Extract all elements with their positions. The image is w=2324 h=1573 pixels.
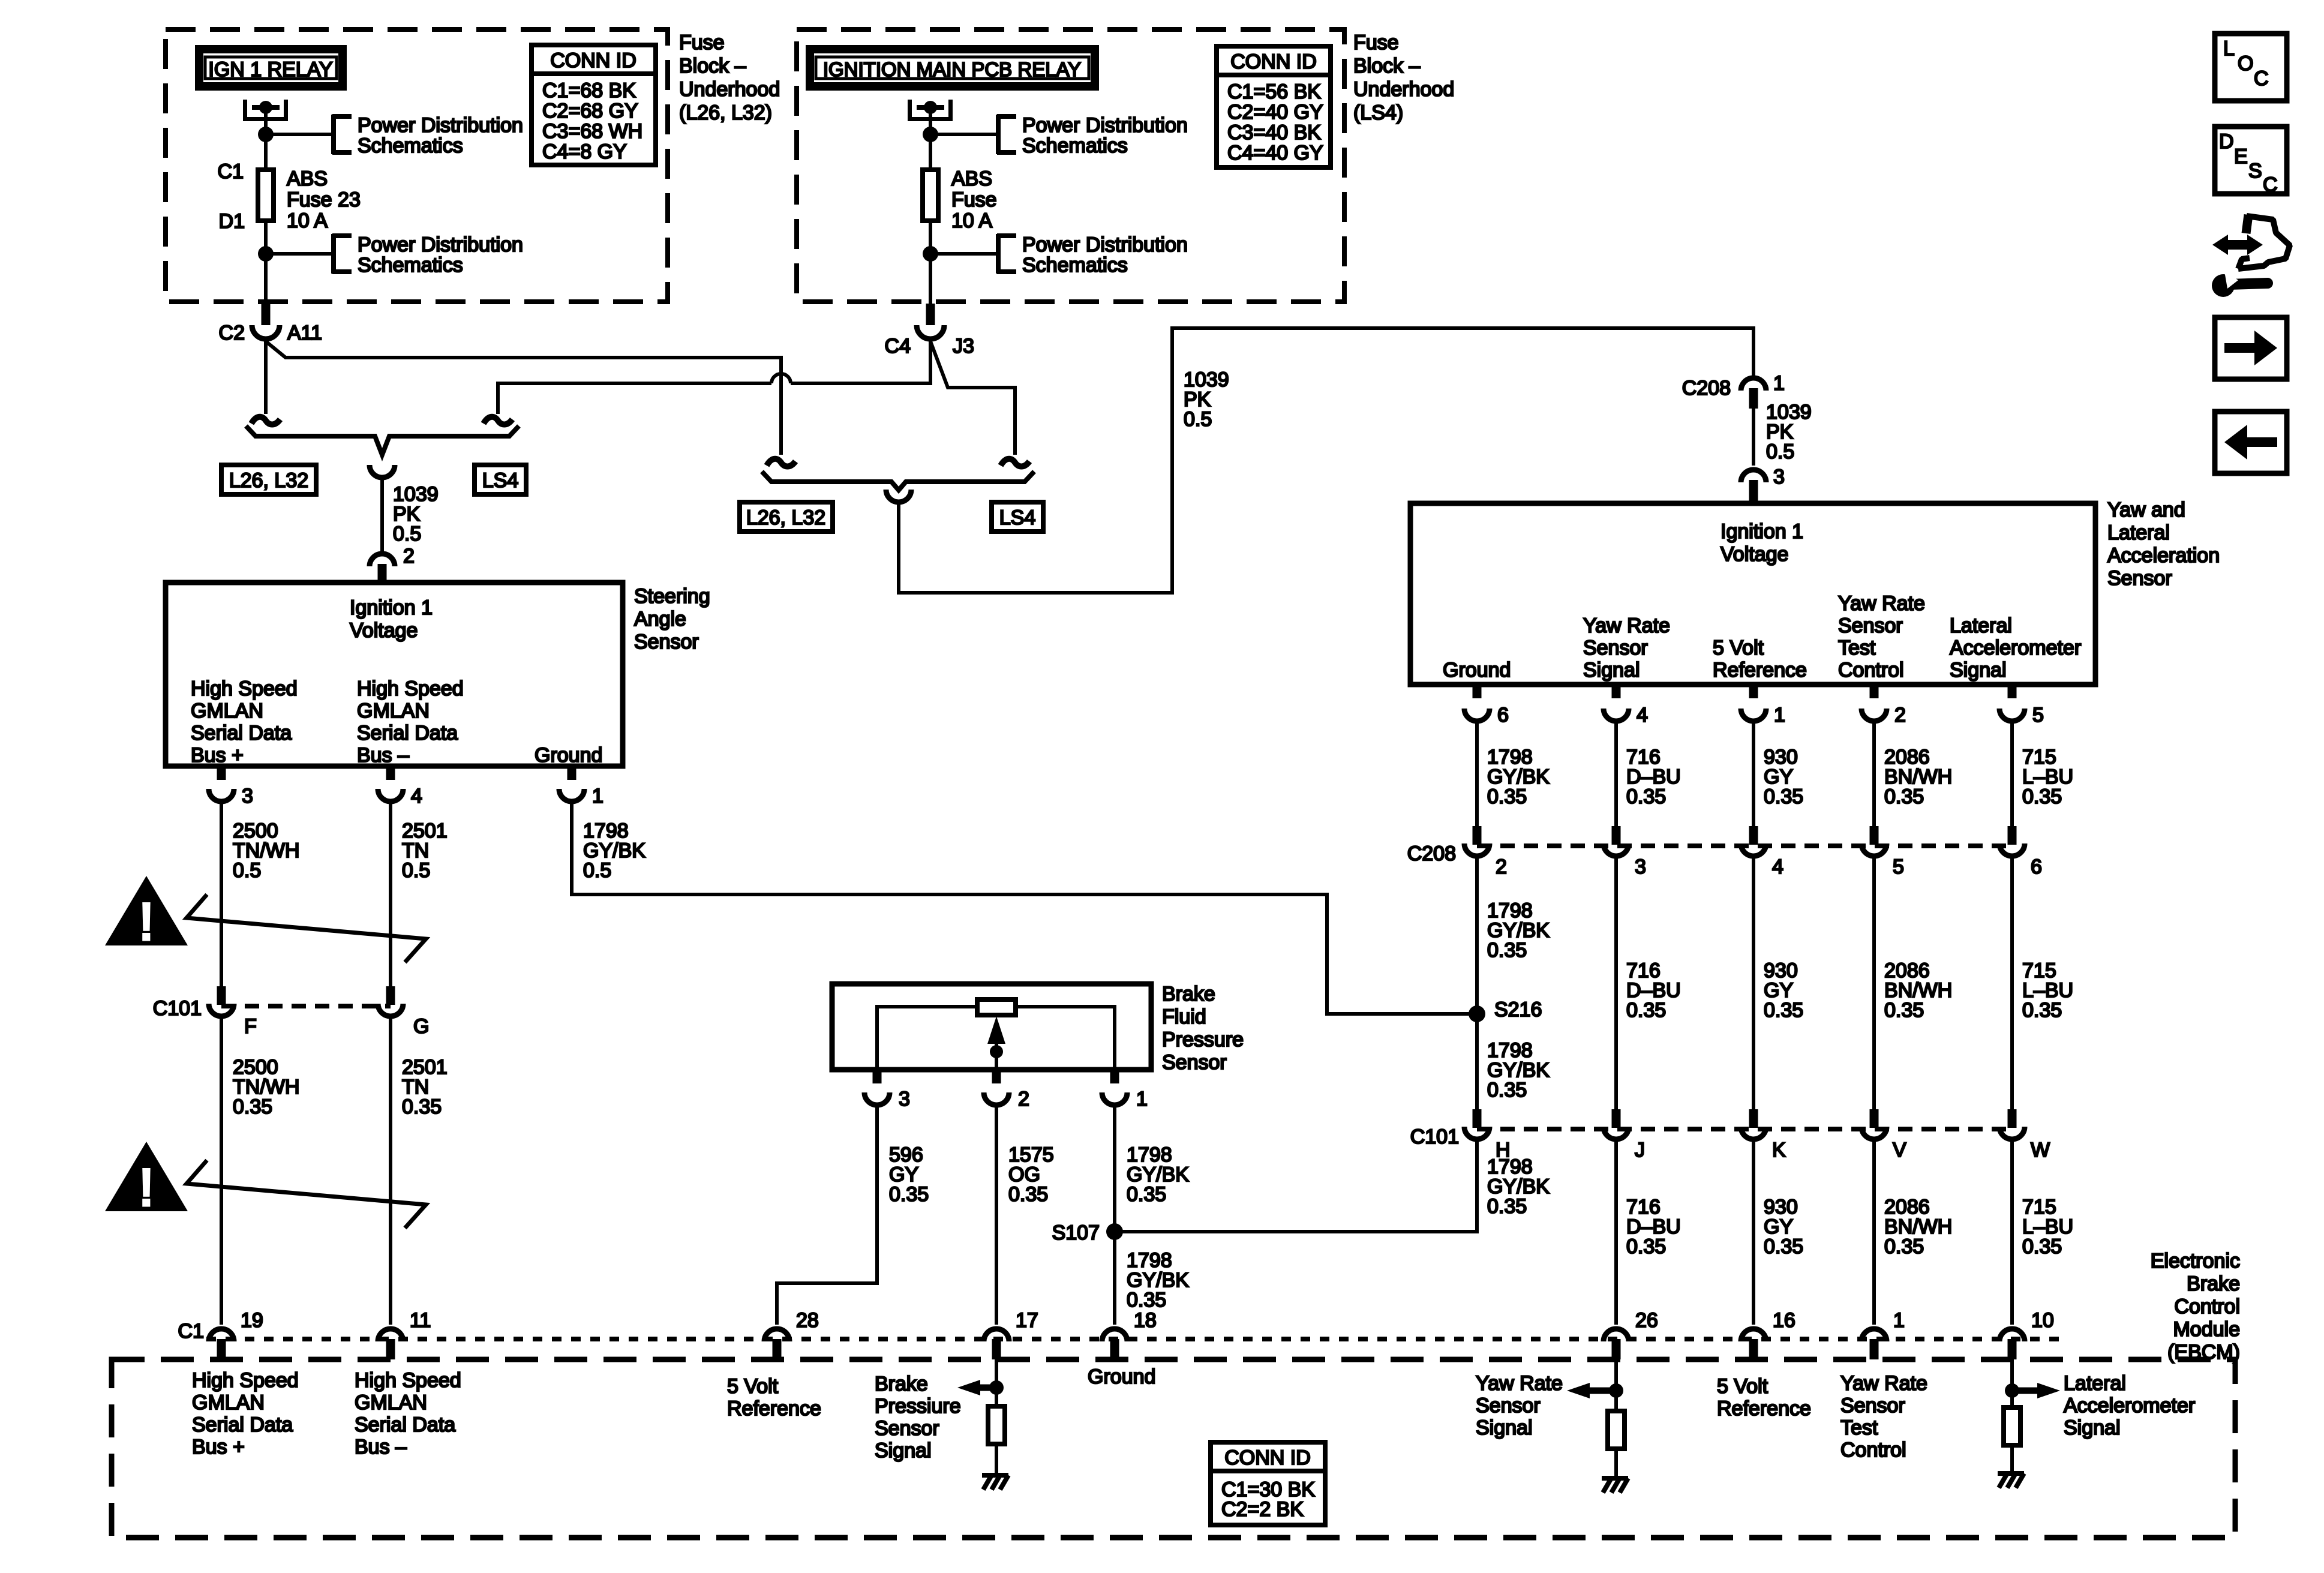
svg-text:C1=56 BK: C1=56 BK — [1227, 80, 1321, 103]
lateral accelerometer signal arrow + pulldown — [2010, 1359, 2014, 1407]
svg-text:C2: C2 — [219, 322, 245, 344]
wire yaw pin 5 to C208 — [2010, 724, 2014, 826]
EBCM pin 1 — [1861, 1329, 1887, 1341]
svg-text:0.5: 0.5 — [1184, 408, 1212, 431]
svg-text:4: 4 — [1637, 704, 1648, 727]
wire 2501 TN — [389, 804, 392, 986]
brake sensor pin 2 — [992, 1070, 1001, 1083]
yaw and lateral acceleration sensor box — [1410, 503, 2095, 685]
svg-text:Schematics: Schematics — [358, 254, 463, 277]
svg-text:C2=68 GY: C2=68 GY — [542, 100, 638, 122]
icon LOC box — [2215, 34, 2287, 101]
svg-text:2: 2 — [1496, 855, 1507, 878]
svg-text:Bus –: Bus – — [357, 744, 409, 767]
connector C4 pin J3 — [926, 304, 935, 325]
label box LS4 (right) — [992, 502, 1043, 532]
svg-text:Acceleration: Acceleration — [2107, 544, 2220, 567]
wire J3 to left splice LS4 clip with hop over crossing — [791, 341, 930, 383]
svg-text:Sensor: Sensor — [1162, 1051, 1227, 1074]
svg-text:28: 28 — [796, 1309, 819, 1332]
svg-text:Fluid: Fluid — [1162, 1005, 1206, 1028]
svg-text:0.35: 0.35 — [1884, 1235, 1924, 1258]
svg-text:Ground: Ground — [535, 744, 602, 767]
icon forward arrow box — [2215, 317, 2287, 379]
wire yaw pin 4 to C208 — [1614, 724, 1618, 826]
svg-text:Test: Test — [1838, 637, 1876, 659]
wire below C208 — [1872, 858, 1876, 1109]
svg-text:Pressiure: Pressiure — [875, 1395, 961, 1418]
svg-text:0.35: 0.35 — [2022, 785, 2062, 808]
wire branch to power distribution 2 — [266, 252, 332, 256]
svg-text:Yaw Rate: Yaw Rate — [1838, 592, 1925, 615]
CONN ID box EBCM — [1211, 1442, 1325, 1525]
svg-text:0.35: 0.35 — [1884, 999, 1924, 1022]
svg-text:19: 19 — [241, 1309, 263, 1332]
svg-text:3: 3 — [899, 1088, 910, 1110]
svg-text:5: 5 — [1893, 855, 1904, 878]
svg-text:Signal: Signal — [1476, 1416, 1533, 1439]
svg-text:C101: C101 — [1410, 1125, 1459, 1148]
svg-text:0.35: 0.35 — [889, 1183, 929, 1206]
svg-text:L: L — [2223, 37, 2235, 60]
fuse ABS Fuse 23 10A — [258, 170, 274, 221]
connector C101 pin H — [1473, 1109, 1482, 1128]
svg-text:Fuse 23: Fuse 23 — [287, 188, 361, 211]
svg-text:(L26, L32): (L26, L32) — [679, 101, 772, 124]
svg-text:D1: D1 — [219, 210, 245, 233]
wire fuse down — [929, 221, 932, 306]
yaw sensor pin 2 — [1870, 685, 1879, 698]
svg-text:0.35: 0.35 — [1764, 999, 1803, 1022]
svg-text:18: 18 — [1134, 1309, 1157, 1332]
IGN 1 RELAY box — [199, 49, 343, 86]
svg-text:V: V — [1893, 1139, 1906, 1161]
wire 1798 GY/BK ground feed to S216 — [572, 804, 1477, 1014]
svg-text:C3=40 BK: C3=40 BK — [1227, 121, 1321, 144]
connector C101 pin K — [1749, 1109, 1758, 1128]
wire yaw pin 2 to C208 — [1872, 724, 1876, 826]
yaw sensor pin 5 — [2008, 685, 2017, 698]
wire A11 to right splice clip — [266, 341, 781, 455]
svg-text:0.35: 0.35 — [2022, 1235, 2062, 1258]
connector C101 pin G — [386, 986, 395, 1005]
svg-text:Fuse: Fuse — [951, 188, 997, 211]
svg-text:Power Distribution: Power Distribution — [358, 233, 523, 256]
svg-text:Test: Test — [1840, 1416, 1878, 1439]
svg-text:(EBCM): (EBCM) — [2167, 1341, 2240, 1364]
steering angle sensor box — [166, 583, 623, 766]
brake sensor pin 3 — [873, 1070, 882, 1083]
svg-text:Voltage: Voltage — [1721, 543, 1788, 566]
svg-text:0.5: 0.5 — [402, 859, 430, 882]
svg-text:J3: J3 — [953, 335, 974, 358]
svg-text:Sensor: Sensor — [2107, 567, 2172, 590]
svg-text:E: E — [2234, 145, 2248, 168]
svg-text:High Speed: High Speed — [357, 677, 464, 700]
svg-text:C3=68 WH: C3=68 WH — [542, 120, 642, 143]
svg-text:Yaw and: Yaw and — [2107, 499, 2185, 521]
svg-text:Fuse: Fuse — [679, 31, 725, 54]
svg-text:C: C — [2254, 67, 2269, 90]
svg-text:(LS4): (LS4) — [1353, 101, 1403, 124]
svg-text:5 Volt: 5 Volt — [1713, 637, 1764, 659]
svg-text:CONN ID: CONN ID — [550, 49, 636, 72]
svg-text:Sensor: Sensor — [1838, 614, 1903, 637]
connector C208 pin 4 — [1749, 826, 1758, 845]
connector C101 pin V — [1870, 1109, 1879, 1128]
potentiometer element — [977, 999, 1016, 1015]
connector C101 pin F — [217, 986, 226, 1005]
side reference Power Distribution Schematics (top) — [331, 115, 336, 154]
svg-text:16: 16 — [1773, 1309, 1795, 1332]
svg-text:ABS: ABS — [287, 167, 328, 190]
option brace left — [246, 426, 519, 455]
svg-text:Accelerometer: Accelerometer — [2064, 1394, 2195, 1417]
option splice output connector — [886, 490, 911, 502]
clip wire end LS4 (right) — [1001, 459, 1029, 467]
steering pin 3 — [217, 766, 226, 780]
svg-text:Signal: Signal — [1950, 659, 2007, 682]
wire yaw pin 1 to C208 — [1752, 724, 1755, 826]
fuse block underhood (LS4) dashed box — [797, 29, 1344, 302]
svg-text:17: 17 — [1016, 1309, 1038, 1332]
wire below C208 — [2010, 858, 2014, 1109]
svg-text:Serial Data: Serial Data — [191, 722, 292, 745]
wire A11 down to left splice clip — [264, 341, 268, 414]
svg-text:S: S — [2248, 160, 2262, 182]
warning triangle 2 — [105, 1142, 188, 1211]
label box LS4 — [475, 465, 526, 494]
wire below C101 2086 BN/WH 0.35 — [1872, 1142, 1876, 1325]
svg-text:2: 2 — [403, 545, 415, 568]
splice S107 — [1106, 1223, 1123, 1240]
svg-text:J: J — [1635, 1139, 1645, 1161]
wire yaw pin 6 to C208 — [1475, 724, 1479, 826]
svg-text:Lateral: Lateral — [1950, 614, 2012, 637]
steering pin 4 — [386, 766, 395, 780]
svg-text:A11: A11 — [287, 322, 322, 344]
connector C208 pin 3 — [1741, 470, 1766, 482]
svg-text:Yaw Rate: Yaw Rate — [1840, 1372, 1927, 1395]
icon DESC box — [2215, 127, 2287, 194]
svg-text:C2=2 BK: C2=2 BK — [1221, 1498, 1304, 1521]
svg-text:Angle: Angle — [634, 608, 686, 631]
svg-text:0.35: 0.35 — [1626, 999, 1666, 1022]
svg-text:C101: C101 — [153, 997, 202, 1020]
svg-text:CONN ID: CONN ID — [1230, 50, 1317, 73]
svg-text:C4=40 GY: C4=40 GY — [1227, 142, 1323, 164]
icon shortcut jump with wrench — [2212, 235, 2263, 255]
wire below C208 — [1752, 858, 1755, 1109]
connector row C208 dashed line — [1477, 843, 2012, 848]
potentiometer internal wiring — [877, 1007, 1115, 1070]
svg-text:C2=40 GY: C2=40 GY — [1227, 101, 1323, 124]
connector row C101 (F,G) dashed line — [221, 1004, 391, 1008]
svg-text:5 Volt: 5 Volt — [1717, 1375, 1768, 1398]
svg-text:0.35: 0.35 — [1487, 1079, 1527, 1101]
wire below C101 716 D–BU 0.35 — [1614, 1142, 1618, 1325]
wire below C101 715 L–BU 0.35 — [2010, 1142, 2014, 1325]
svg-text:GMLAN: GMLAN — [355, 1391, 427, 1414]
svg-text:10 A: 10 A — [287, 209, 328, 232]
svg-text:L26, L32: L26, L32 — [229, 469, 308, 492]
svg-text:IGN 1 RELAY: IGN 1 RELAY — [208, 58, 332, 81]
steering pin 1 — [568, 766, 577, 780]
twisted pair mark 1 — [187, 894, 426, 962]
wire 1798 GY/BK 0.35 — [1113, 1107, 1116, 1325]
brake sensor pin 1 — [1110, 1070, 1119, 1083]
svg-text:4: 4 — [1772, 855, 1783, 878]
svg-text:0.35: 0.35 — [1127, 1289, 1166, 1311]
connector C2 pin A11 — [262, 304, 271, 325]
svg-text:IGNITION MAIN PCB RELAY: IGNITION MAIN PCB RELAY — [823, 58, 1081, 80]
svg-text:10 A: 10 A — [951, 209, 992, 232]
splice S216 — [1469, 1005, 1485, 1022]
connector row C101 (H-W) dashed line — [1477, 1127, 2012, 1131]
wire 2500 TN/WH 0.35 — [220, 1019, 223, 1325]
svg-text:Voltage: Voltage — [350, 619, 418, 642]
wire J3 to right splice LS4 clip — [930, 341, 1015, 455]
EBCM pin 28 — [764, 1329, 789, 1341]
svg-text:Yaw Rate: Yaw Rate — [1583, 614, 1670, 637]
svg-text:0.35: 0.35 — [1764, 1235, 1803, 1258]
EBCM pin 16 — [1741, 1329, 1766, 1341]
connector C208 pin 3 — [1612, 826, 1621, 845]
svg-text:Control: Control — [1840, 1439, 1906, 1461]
svg-text:Module: Module — [2173, 1318, 2240, 1341]
svg-text:Ground: Ground — [1088, 1365, 1155, 1388]
svg-text:1: 1 — [1893, 1309, 1905, 1332]
label box L26,L32 — [221, 465, 316, 494]
svg-text:High Speed: High Speed — [191, 677, 298, 700]
svg-text:0.35: 0.35 — [233, 1095, 272, 1118]
wire 1039 PK feed to yaw sensor — [899, 328, 1753, 593]
svg-text:GMLAN: GMLAN — [357, 700, 430, 722]
svg-text:0.35: 0.35 — [402, 1095, 442, 1118]
clip wire end L26,L32 (right) — [767, 459, 795, 467]
wire relay to fuse — [929, 107, 932, 170]
svg-text:Lateral: Lateral — [2064, 1372, 2126, 1395]
svg-text:Block –: Block – — [1353, 55, 1421, 77]
svg-text:3: 3 — [242, 785, 253, 807]
wire 2501 TN 0.35 — [389, 1019, 392, 1325]
EBCM dashed box — [112, 1359, 2235, 1538]
svg-text:0.35: 0.35 — [1626, 785, 1666, 808]
connector C208 pin 6 — [2008, 826, 2017, 845]
brake fluid pressure sensor box — [832, 984, 1151, 1070]
svg-text:C1: C1 — [178, 1320, 204, 1343]
connector C101 pin W — [2008, 1109, 2017, 1128]
svg-text:Underhood: Underhood — [1353, 78, 1454, 101]
junction node — [923, 127, 938, 142]
svg-text:11: 11 — [410, 1309, 431, 1332]
wire below C101 930 GY 0.35 — [1752, 1142, 1755, 1325]
svg-text:Power Distribution: Power Distribution — [1022, 233, 1188, 256]
wire relay to fuse — [264, 107, 268, 170]
svg-text:Serial Data: Serial Data — [357, 722, 458, 745]
svg-text:5: 5 — [2032, 704, 2044, 727]
junction node — [258, 127, 274, 142]
wiper arrow — [987, 1016, 1005, 1044]
svg-text:C4: C4 — [885, 335, 911, 358]
wire below C208 — [1475, 858, 1479, 1109]
svg-text:0.35: 0.35 — [1487, 1195, 1527, 1218]
option brace right — [762, 472, 1034, 490]
svg-text:K: K — [1772, 1139, 1786, 1161]
svg-text:Schematics: Schematics — [1022, 254, 1128, 277]
fuse ABS Fuse 10A — [923, 170, 938, 221]
relay contact terminal — [908, 100, 912, 121]
clip wire end LS4 (left) — [484, 417, 512, 425]
wire 1039 PK to steering angle sensor — [380, 480, 384, 551]
side reference Power Distribution Schematics (bottom) — [331, 234, 336, 274]
svg-text:S107: S107 — [1052, 1221, 1100, 1244]
svg-text:0.35: 0.35 — [2022, 999, 2062, 1022]
EBCM pin 17 — [984, 1329, 1009, 1341]
svg-text:Brake: Brake — [1162, 983, 1215, 1005]
svg-text:LS4: LS4 — [999, 506, 1036, 529]
svg-text:Sensor: Sensor — [634, 631, 699, 653]
svg-text:C1: C1 — [218, 160, 244, 183]
svg-text:Yaw Rate: Yaw Rate — [1476, 1372, 1563, 1395]
svg-text:L26, L32: L26, L32 — [746, 506, 825, 529]
svg-text:Serial Data: Serial Data — [355, 1413, 455, 1436]
svg-text:0.35: 0.35 — [1487, 785, 1527, 808]
svg-text:1: 1 — [1773, 372, 1785, 395]
svg-text:10: 10 — [2031, 1309, 2054, 1332]
junction node — [258, 246, 274, 262]
svg-text:4: 4 — [411, 785, 422, 807]
svg-text:0.35: 0.35 — [1884, 785, 1924, 808]
clip wire end L26,L32 (left) — [251, 417, 280, 425]
svg-text:Lateral: Lateral — [2107, 521, 2170, 544]
svg-text:Signal: Signal — [1583, 659, 1640, 682]
svg-text:Bus –: Bus – — [355, 1436, 407, 1458]
svg-text:Sensor: Sensor — [1840, 1394, 1905, 1417]
svg-text:2: 2 — [1894, 704, 1906, 727]
svg-text:Brake: Brake — [875, 1373, 928, 1395]
svg-text:1: 1 — [1774, 704, 1785, 727]
EBCM pin 11 — [378, 1329, 403, 1341]
svg-text:1: 1 — [1136, 1088, 1148, 1110]
svg-text:C4=8 GY: C4=8 GY — [542, 140, 627, 163]
svg-text:2: 2 — [1018, 1088, 1029, 1110]
wire 1039 PK 0.5 — [1752, 409, 1755, 466]
svg-text:6: 6 — [2031, 855, 2042, 878]
EBCM connector C1 dotted line — [206, 1337, 2064, 1341]
icon back arrow box — [2215, 412, 2287, 473]
svg-text:C208: C208 — [1407, 842, 1456, 865]
option splice output connector — [370, 465, 395, 478]
svg-text:Sensor: Sensor — [875, 1417, 939, 1440]
svg-text:Electronic: Electronic — [2151, 1250, 2240, 1272]
connector C208 pin 1 — [1741, 378, 1766, 391]
svg-text:0.5: 0.5 — [393, 523, 421, 545]
connector C101 pin J — [1612, 1109, 1621, 1128]
svg-text:Pressure: Pressure — [1162, 1028, 1244, 1051]
CONN ID box left — [532, 45, 656, 165]
svg-text:Sensor: Sensor — [1476, 1394, 1541, 1417]
svg-text:S216: S216 — [1494, 998, 1542, 1021]
svg-text:0.5: 0.5 — [1766, 440, 1794, 463]
svg-text:5 Volt: 5 Volt — [727, 1375, 779, 1398]
EBCM pin 26 — [1604, 1329, 1629, 1341]
wire below C208 — [1614, 858, 1618, 1109]
svg-text:Power Distribution: Power Distribution — [358, 114, 523, 137]
wire 596 GY 0.35 — [777, 1107, 877, 1325]
side reference Power Distribution Schematics (bottom) — [996, 234, 1001, 274]
junction node — [923, 246, 938, 262]
svg-text:GMLAN: GMLAN — [191, 700, 263, 722]
EBCM pin 18 — [1102, 1329, 1127, 1341]
CONN ID box right — [1217, 46, 1331, 167]
connector pin 2 steering angle sensor — [370, 554, 395, 566]
svg-text:0.35: 0.35 — [1764, 785, 1803, 808]
svg-text:Reference: Reference — [1717, 1397, 1811, 1420]
svg-text:Reference: Reference — [727, 1397, 821, 1420]
wire C101 H to S107 — [1115, 1142, 1477, 1232]
svg-text:0.35: 0.35 — [1127, 1183, 1166, 1206]
svg-text:GMLAN: GMLAN — [192, 1391, 265, 1414]
wire 2500 TN/WH — [220, 804, 223, 986]
svg-text:LS4: LS4 — [482, 469, 519, 492]
svg-text:Block –: Block – — [679, 55, 746, 77]
IGNITION MAIN PCB RELAY box — [810, 49, 1095, 86]
svg-text:Signal: Signal — [2064, 1416, 2121, 1439]
svg-text:Steering: Steering — [634, 585, 710, 608]
svg-text:Control: Control — [1838, 659, 1904, 682]
EBCM pin 10 — [1999, 1329, 2025, 1341]
svg-text:O: O — [2238, 52, 2253, 75]
svg-text:3: 3 — [1773, 466, 1785, 488]
svg-text:C1=68 BK: C1=68 BK — [542, 79, 636, 102]
svg-text:W: W — [2031, 1139, 2050, 1161]
svg-text:Schematics: Schematics — [358, 134, 463, 157]
side reference Power Distribution Schematics (top) — [996, 115, 1001, 154]
svg-text:ABS: ABS — [951, 167, 992, 190]
svg-text:!: ! — [139, 893, 154, 951]
svg-text:Bus +: Bus + — [192, 1436, 245, 1458]
wire branch — [930, 252, 996, 256]
svg-text:Signal: Signal — [875, 1439, 932, 1462]
svg-text:Sensor: Sensor — [1583, 637, 1648, 659]
svg-text:Underhood: Underhood — [679, 78, 780, 101]
wire 1575 OG 0.35 — [995, 1107, 998, 1325]
svg-text:G: G — [413, 1015, 429, 1038]
svg-text:Ground: Ground — [1443, 659, 1511, 682]
svg-text:C: C — [2263, 173, 2278, 196]
relay contact terminal — [243, 100, 247, 121]
svg-text:Schematics: Schematics — [1022, 134, 1128, 157]
svg-text:0.5: 0.5 — [233, 859, 261, 882]
svg-text:Ignition 1: Ignition 1 — [1721, 520, 1803, 543]
svg-text:Reference: Reference — [1713, 659, 1807, 682]
svg-text:Ignition 1: Ignition 1 — [350, 596, 433, 619]
svg-text:Bus +: Bus + — [191, 744, 244, 767]
yaw sensor pin 4 — [1612, 685, 1621, 698]
label box L26,L32 (right) — [740, 502, 833, 532]
wire branch to power distribution — [266, 133, 332, 136]
svg-text:Brake: Brake — [2187, 1272, 2240, 1295]
fuse block underhood (L26,L32) dashed box — [166, 29, 668, 302]
svg-text:CONN ID: CONN ID — [1224, 1446, 1311, 1469]
svg-text:!: ! — [139, 1159, 154, 1217]
wire fuse down — [264, 221, 268, 306]
connector C208 pin 5 — [1870, 826, 1879, 845]
warning triangle 1 — [105, 876, 188, 945]
yaw sensor pin 1 — [1749, 685, 1758, 698]
svg-text:3: 3 — [1635, 855, 1646, 878]
